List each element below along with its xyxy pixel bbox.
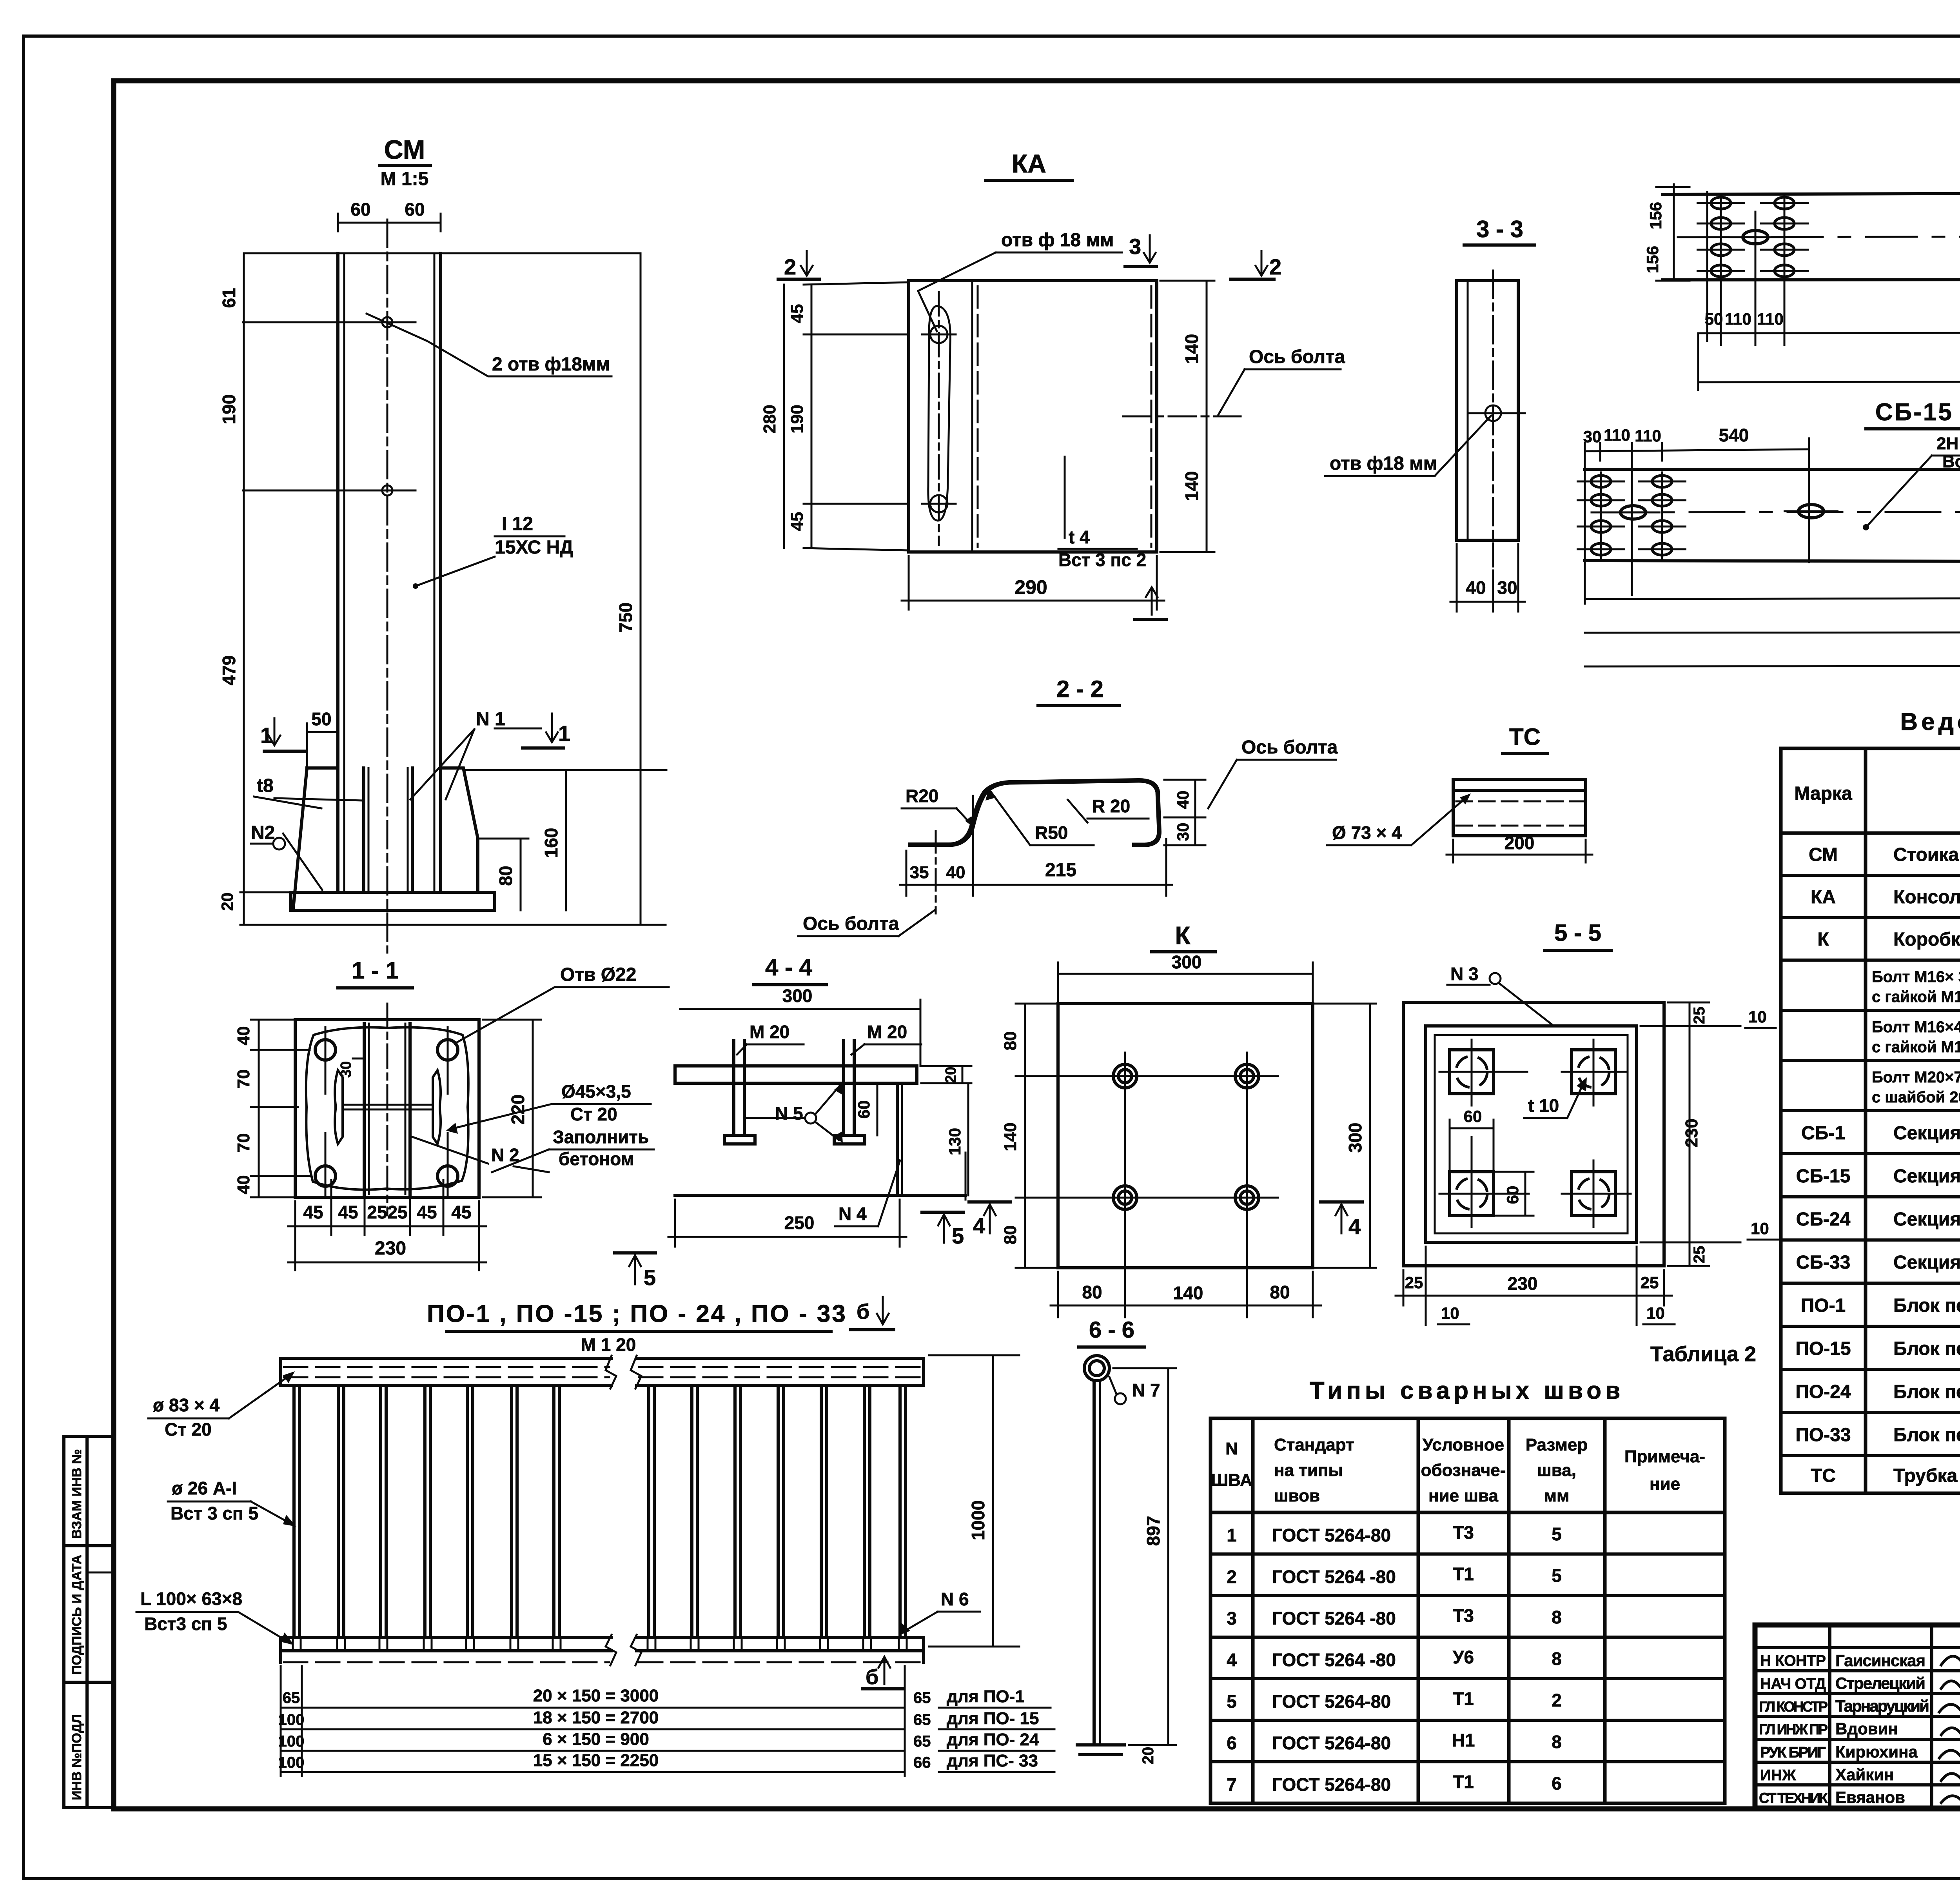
foot <box>1077 1743 1124 1746</box>
svg-text:Евяанов: Евяанов <box>1835 1788 1905 1806</box>
svg-text:Консоль амортизатор: Консоль амортизатор <box>1893 887 1960 908</box>
svg-text:Вст 3 сп 5: Вст 3 сп 5 <box>171 1503 258 1523</box>
figure ПО bottom dims <box>278 1666 1054 1776</box>
svg-text:140: 140 <box>1173 1283 1203 1303</box>
svg-text:с шайбой 20 по ГОСТ 11371-78: с шайбой 20 по ГОСТ 11371-78 <box>1872 1089 1960 1106</box>
svg-text:190: 190 <box>788 405 807 433</box>
top chord tube <box>281 1357 612 1360</box>
svg-text:5 - 5: 5 - 5 <box>1554 920 1601 946</box>
personnel table <box>1755 1625 1960 1808</box>
svg-text:N 3: N 3 <box>1450 964 1479 984</box>
svg-text:250: 250 <box>784 1213 815 1233</box>
svg-text:N 2: N 2 <box>491 1145 519 1165</box>
figure КА console <box>760 230 1345 619</box>
svg-text:I 12: I 12 <box>502 514 533 534</box>
svg-text:479: 479 <box>219 655 239 686</box>
svg-text:1: 1 <box>558 721 570 746</box>
svg-text:20: 20 <box>943 1067 959 1083</box>
svg-text:для ПС- 33: для ПС- 33 <box>947 1751 1038 1770</box>
svg-text:100: 100 <box>278 1754 305 1771</box>
dim 60 <box>877 1083 878 1135</box>
table 1 rows <box>1795 844 1960 1486</box>
svg-text:10: 10 <box>1751 1219 1769 1238</box>
svg-text:1: 1 <box>260 723 272 748</box>
svg-text:ТС: ТС <box>1509 724 1541 750</box>
svg-text:СБ-15 , СБ-24 . СБ-33: СБ-15 , СБ-24 . СБ-33 <box>1875 399 1960 426</box>
svg-text:140: 140 <box>1181 471 1202 501</box>
svg-text:Ведомость марок для ОГ и: Ведомость марок для ОГ и ПО <box>1900 708 1960 735</box>
svg-text:70: 70 <box>234 1133 253 1153</box>
I-beam flange right <box>433 1070 441 1144</box>
svg-text:СМ: СМ <box>384 135 425 165</box>
svg-text:35: 35 <box>910 863 929 882</box>
figure ПО railing panel 2 <box>631 1355 1019 1665</box>
svg-text:65: 65 <box>913 1711 931 1728</box>
svg-text:Ø 73 × 4: Ø 73 × 4 <box>1332 822 1402 843</box>
right gusset <box>441 768 478 892</box>
bottom dims 80 140 80 <box>1057 1272 1059 1317</box>
svg-text:50: 50 <box>311 709 331 729</box>
svg-text:отв ф18 мм: отв ф18 мм <box>1330 453 1437 474</box>
svg-text:100: 100 <box>278 1711 305 1728</box>
figure КА title <box>986 149 1072 180</box>
svg-text:65: 65 <box>913 1689 931 1707</box>
svg-text:СБ-1: СБ-1 <box>1801 1123 1845 1144</box>
svg-text:Блок перил: Блок перил <box>1893 1382 1960 1402</box>
svg-text:80: 80 <box>1001 1225 1020 1245</box>
svg-text:КА: КА <box>1811 887 1836 908</box>
table 2 header <box>1211 1435 1705 1505</box>
dim 80 <box>520 839 522 910</box>
svg-text:8: 8 <box>1552 1607 1562 1627</box>
centerline vertical <box>387 1004 388 1215</box>
I-beam flange lines <box>336 253 339 892</box>
svg-text:ШВА: ШВА <box>1211 1471 1252 1490</box>
svg-text:Блок перил: Блок перил <box>1893 1425 1960 1445</box>
svg-text:Стрелецкий: Стрелецкий <box>1835 1674 1926 1692</box>
svg-text:45: 45 <box>788 512 807 531</box>
dim 200 <box>1452 840 1454 862</box>
svg-text:2: 2 <box>784 254 796 279</box>
right dim chain <box>1689 1002 1691 1266</box>
svg-text:1: 1 <box>1227 1525 1237 1545</box>
dim 2840 <box>1585 597 1960 599</box>
svg-text:ние шва: ние шва <box>1428 1486 1498 1505</box>
svg-text:190: 190 <box>219 394 239 425</box>
svg-text:140: 140 <box>1001 1122 1020 1151</box>
svg-text:540: 540 <box>1719 425 1749 445</box>
section mark 4 right <box>1320 1200 1362 1204</box>
bottom chord angle <box>281 1636 612 1639</box>
svg-text:60: 60 <box>1503 1186 1522 1204</box>
svg-text:шва,: шва, <box>1537 1461 1576 1480</box>
small dim 30 <box>353 1058 364 1060</box>
svg-text:Блок перил: Блок перил <box>1893 1295 1960 1316</box>
right dim 300 <box>1369 1004 1371 1268</box>
left dim 280 <box>783 285 785 548</box>
svg-text:40: 40 <box>1174 791 1192 809</box>
svg-text:ТС: ТС <box>1811 1465 1836 1486</box>
svg-text:Марка: Марка <box>1794 783 1852 804</box>
svg-text:25: 25 <box>1405 1273 1423 1292</box>
svg-text:45: 45 <box>303 1202 323 1222</box>
left dim chain 61 190 479 <box>243 253 245 925</box>
svg-text:ние: ние <box>1650 1474 1680 1494</box>
svg-text:М 20: М 20 <box>867 1022 907 1042</box>
table 1 header <box>1794 767 1960 828</box>
svg-text:80: 80 <box>1270 1282 1290 1302</box>
svg-text:6: 6 <box>1552 1773 1562 1794</box>
svg-text:СБ-33: СБ-33 <box>1796 1252 1851 1273</box>
figure 5-5 box section plan <box>1396 964 1778 1325</box>
svg-text:20: 20 <box>218 893 236 911</box>
svg-text:2Н 312×83 ×4: 2Н 312×83 ×4 <box>1936 434 1960 453</box>
svg-text:ГОСТ 5264-80: ГОСТ 5264-80 <box>1272 1525 1391 1545</box>
svg-text:160: 160 <box>541 828 561 858</box>
anchor bolt left <box>732 1040 735 1135</box>
svg-text:Таблица 2: Таблица 2 <box>1650 1342 1756 1366</box>
svg-text:60: 60 <box>1464 1107 1482 1126</box>
svg-text:с гайкой М16 5 по ГОСТ 5915-: с гайкой М16 5 по ГОСТ 5915-70 <box>1872 988 1960 1006</box>
svg-text:2 отв ф18мм: 2 отв ф18мм <box>492 354 610 375</box>
svg-text:30: 30 <box>338 1061 354 1078</box>
figure 1-1 base plate plan <box>234 964 669 1270</box>
svg-text:6: 6 <box>1227 1733 1237 1753</box>
dim 20 <box>962 1066 964 1083</box>
svg-text:290: 290 <box>1014 576 1047 598</box>
svg-text:1 - 1: 1 - 1 <box>352 957 399 984</box>
svg-text:3: 3 <box>1227 1608 1237 1628</box>
svg-text:45: 45 <box>417 1202 437 1222</box>
weld marks <box>293 1638 561 1648</box>
svg-text:130: 130 <box>946 1128 964 1155</box>
svg-text:Отв Ø22: Отв Ø22 <box>560 964 636 985</box>
svg-text:66: 66 <box>913 1754 931 1771</box>
svg-text:Стоика мостовая: Стоика мостовая <box>1893 844 1960 865</box>
svg-text:110: 110 <box>1635 427 1661 445</box>
washer axes <box>1439 1071 1527 1073</box>
dim 230 <box>288 1262 486 1264</box>
figure ТС tube <box>1327 779 1592 862</box>
svg-text:230: 230 <box>1682 1118 1701 1147</box>
left dim chain 45 190 45 <box>811 285 813 548</box>
I-beam section web <box>343 1104 433 1106</box>
figure 1-1 title <box>338 957 412 988</box>
bars <box>294 1385 559 1638</box>
svg-text:100: 100 <box>278 1733 305 1750</box>
svg-text:N 1: N 1 <box>476 709 505 730</box>
svg-text:N 6: N 6 <box>941 1589 969 1609</box>
svg-text:65: 65 <box>913 1733 931 1750</box>
svg-text:Вст 3 пс 2: Вст 3 пс 2 <box>1058 550 1146 570</box>
svg-text:5: 5 <box>952 1224 964 1248</box>
left margin stamp column <box>64 1436 113 1808</box>
svg-text:бетоном: бетоном <box>559 1149 634 1169</box>
svg-text:7: 7 <box>1227 1774 1237 1795</box>
svg-text:Коробка: Коробка <box>1893 929 1960 950</box>
svg-text:230: 230 <box>1508 1273 1538 1294</box>
svg-text:5: 5 <box>1227 1691 1237 1712</box>
signatures <box>1938 1653 1960 1805</box>
svg-text:N 4: N 4 <box>838 1204 867 1224</box>
svg-text:Секция балки: Секция балки <box>1893 1123 1960 1144</box>
left bolt group <box>1706 192 1708 341</box>
svg-text:10: 10 <box>1441 1304 1459 1322</box>
dim 220 <box>532 1020 534 1197</box>
svg-text:Типы сварных швов: Типы сварных швов <box>1310 1377 1624 1404</box>
table 2 grid <box>1210 1418 1725 1803</box>
svg-text:на типы: на типы <box>1274 1461 1343 1480</box>
svg-text:КА: КА <box>1012 149 1046 178</box>
svg-text:Т1: Т1 <box>1453 1564 1474 1584</box>
svg-text:80: 80 <box>1001 1031 1020 1051</box>
svg-text:Болт М20×70 46 по ГОСТ 7798-70: Болт М20×70 46 по ГОСТ 7798-70 <box>1872 1069 1960 1086</box>
dims 60 60 lower-left washer <box>1450 1127 1494 1129</box>
svg-text:t8: t8 <box>257 775 274 796</box>
plate inner <box>1426 1026 1637 1242</box>
base plate <box>291 892 495 910</box>
svg-text:30: 30 <box>1583 427 1602 446</box>
svg-text:К: К <box>1175 921 1191 950</box>
rib plates edge-on <box>363 1024 366 1194</box>
svg-text:ГЛ ИНЖ ПР: ГЛ ИНЖ ПР <box>1759 1721 1828 1737</box>
svg-text:Гаисинская: Гаисинская <box>1835 1651 1926 1670</box>
svg-text:N 5: N 5 <box>775 1103 803 1124</box>
table 1 caption <box>1900 678 1960 735</box>
svg-text:25: 25 <box>1691 1007 1708 1024</box>
svg-text:50: 50 <box>1705 310 1723 328</box>
svg-text:18 × 150 = 2700: 18 × 150 = 2700 <box>533 1708 659 1727</box>
svg-text:Секция балки: Секция балки <box>1893 1166 1960 1187</box>
svg-text:Секция балки: Секция балки <box>1893 1252 1960 1273</box>
dim 50 gusset <box>307 731 338 733</box>
svg-text:61: 61 <box>219 288 239 308</box>
svg-text:Стандарт: Стандарт <box>1274 1435 1354 1454</box>
svg-text:ИНЖ: ИНЖ <box>1760 1767 1796 1784</box>
svg-text:Н КОНТР: Н КОНТР <box>1760 1652 1826 1669</box>
svg-text:Тарнаруцкий: Тарнаруцкий <box>1835 1697 1929 1715</box>
svg-text:М 20: М 20 <box>750 1022 789 1042</box>
svg-text:ГОСТ 5264 -80: ГОСТ 5264 -80 <box>1272 1650 1396 1670</box>
svg-text:45: 45 <box>338 1202 358 1222</box>
svg-text:швов: швов <box>1274 1486 1320 1505</box>
svg-text:156: 156 <box>1643 246 1662 273</box>
dim 3140 <box>1585 632 1960 633</box>
svg-text:Болт М16×45,46 по ГОСТ 7802-81: Болт М16×45,46 по ГОСТ 7802-81 <box>1872 1018 1960 1036</box>
svg-text:15ХС НД: 15ХС НД <box>495 537 573 558</box>
box walls outer <box>1403 1002 1664 1266</box>
svg-text:300: 300 <box>1345 1123 1365 1153</box>
svg-text:25: 25 <box>1691 1246 1708 1264</box>
svg-text:Т3: Т3 <box>1453 1522 1474 1543</box>
slot outline <box>928 306 951 521</box>
dim 897 <box>1167 1368 1169 1745</box>
svg-text:ИНВ №ПОДЛ: ИНВ №ПОДЛ <box>69 1714 84 1800</box>
svg-text:Ось болта: Ось болта <box>803 913 899 934</box>
figure ПО railing panel 1 <box>281 1356 616 1665</box>
section mark 5 left <box>615 1251 655 1255</box>
dim 3440 <box>1585 666 1960 666</box>
base plate <box>675 1066 917 1083</box>
svg-text:обозначе-: обозначе- <box>1421 1461 1506 1480</box>
svg-text:2: 2 <box>1227 1567 1237 1587</box>
dim 160 <box>565 770 567 910</box>
top dim 30 110 110 540 <box>1585 449 1809 451</box>
svg-text:Трубка стыковочная: Трубка стыковочная <box>1893 1465 1960 1486</box>
svg-text:Ст 20: Ст 20 <box>570 1104 617 1124</box>
svg-text:ГОСТ 5264-80: ГОСТ 5264-80 <box>1272 1733 1391 1753</box>
left gusset <box>293 768 338 909</box>
svg-text:N2: N2 <box>251 822 275 843</box>
svg-text:4: 4 <box>973 1213 985 1238</box>
figure СБ-1 beam <box>1643 117 1960 390</box>
N4 plate <box>896 1083 899 1195</box>
holes <box>1113 1064 1259 1209</box>
svg-text:б: б <box>857 1300 869 1323</box>
svg-text:ПО-24: ПО-24 <box>1795 1382 1851 1402</box>
holes <box>315 1040 336 1060</box>
svg-text:ГОСТ 5264 -80: ГОСТ 5264 -80 <box>1272 1567 1396 1587</box>
figure К plate plan <box>1001 952 1376 1317</box>
svg-text:СМ: СМ <box>1809 844 1838 865</box>
svg-text:220: 220 <box>508 1095 528 1125</box>
svg-text:60: 60 <box>350 199 370 220</box>
section mark 2 right <box>1256 251 1267 276</box>
stiffener ribs N1 <box>362 768 365 892</box>
svg-text:110: 110 <box>1604 426 1630 444</box>
svg-text:8: 8 <box>1552 1648 1562 1669</box>
left bolt group <box>1600 472 1602 559</box>
figure К title <box>1152 921 1215 952</box>
svg-text:Ст 20: Ст 20 <box>165 1419 212 1440</box>
svg-text:156: 156 <box>1646 202 1665 229</box>
svg-text:30: 30 <box>1174 823 1192 841</box>
figure 4-4 section <box>615 986 1362 1290</box>
svg-text:80: 80 <box>495 866 516 886</box>
svg-text:t 4: t 4 <box>1069 527 1090 547</box>
svg-text:б: б <box>866 1665 878 1689</box>
svg-text:3 - 3: 3 - 3 <box>1476 216 1523 242</box>
svg-text:300: 300 <box>782 986 813 1006</box>
svg-text:Т1: Т1 <box>1453 1772 1474 1792</box>
svg-text:280: 280 <box>760 405 779 433</box>
figure 2-2 title <box>1038 676 1119 706</box>
svg-text:45: 45 <box>451 1202 471 1222</box>
figure 6-6 post section <box>862 1356 1176 1764</box>
svg-text:L 100× 63×8: L 100× 63×8 <box>140 1589 242 1609</box>
svg-text:с гайкой М16 5 по ГОСТ 5915-7: с гайкой М16 5 по ГОСТ 5915-70 <box>1872 1038 1960 1056</box>
svg-text:ВЗАМ ИНВ №: ВЗАМ ИНВ № <box>69 1449 84 1539</box>
figure 3-3 section <box>1325 271 1525 612</box>
dim line 1880 <box>1698 332 1960 333</box>
svg-text:110: 110 <box>1725 310 1751 328</box>
svg-text:Т1: Т1 <box>1453 1688 1474 1709</box>
svg-text:Ø45×3,5: Ø45×3,5 <box>561 1081 631 1102</box>
figure 4-4 title <box>753 954 826 985</box>
svg-text:У6: У6 <box>1453 1647 1474 1667</box>
svg-text:25: 25 <box>387 1202 407 1222</box>
svg-text:РУК БРИГ: РУК БРИГ <box>1760 1744 1826 1761</box>
section mark 4 left <box>969 1200 1011 1204</box>
bottom dim 40 30 <box>1456 544 1458 612</box>
title block frame <box>1755 1625 1960 1808</box>
dim 300 <box>680 1008 920 1010</box>
svg-text:Хайкин: Хайкин <box>1835 1765 1894 1784</box>
bottom edge <box>675 1194 965 1197</box>
svg-text:300: 300 <box>1172 952 1202 972</box>
bottom dims 45 45 25 25 45 45 <box>294 1201 296 1270</box>
plate centerline <box>938 292 940 545</box>
svg-text:230: 230 <box>375 1238 406 1259</box>
svg-text:Вст3 сп 5: Вст3 сп 5 <box>144 1614 227 1634</box>
plate outline <box>1058 1004 1313 1268</box>
figure 3-3 title <box>1464 216 1535 245</box>
svg-text:25: 25 <box>1641 1273 1659 1292</box>
svg-text:6 × 150 = 900: 6 × 150 = 900 <box>543 1730 649 1749</box>
svg-text:70: 70 <box>234 1069 253 1089</box>
svg-text:Блок перил: Блок перил <box>1893 1338 1960 1359</box>
svg-text:Вст 3 пс 2: Вст 3 пс 2 <box>1942 452 1960 471</box>
figure 2-2 guardrail section <box>798 737 1338 936</box>
svg-text:1000: 1000 <box>968 1500 988 1540</box>
section mark 5 right <box>922 1211 964 1214</box>
bottom dim 35 40 215 <box>906 851 907 896</box>
post centerline <box>387 220 388 953</box>
svg-text:10: 10 <box>1748 1008 1767 1026</box>
figure 5-5 title <box>1544 920 1611 950</box>
section mark 1 right <box>546 713 558 742</box>
plate outline <box>909 281 1157 552</box>
left dim chain 80 140 80 <box>1024 1004 1026 1268</box>
svg-text:4 - 4: 4 - 4 <box>765 954 813 980</box>
svg-text:40: 40 <box>234 1026 253 1046</box>
svg-text:897: 897 <box>1143 1516 1163 1546</box>
svg-text:6 - 6: 6 - 6 <box>1089 1317 1134 1343</box>
top dim 60 60 <box>338 222 441 224</box>
svg-text:15 × 150 = 2250: 15 × 150 = 2250 <box>533 1751 659 1770</box>
svg-text:ПО-15: ПО-15 <box>1795 1338 1851 1359</box>
svg-text:80: 80 <box>1082 1282 1102 1302</box>
bolt axis <box>935 831 937 913</box>
svg-text:40: 40 <box>946 863 965 882</box>
svg-text:5: 5 <box>1552 1565 1562 1586</box>
figure СМ post elevation <box>218 199 666 953</box>
svg-text:для ПО-1: для ПО-1 <box>947 1687 1025 1706</box>
bolt hole bottom <box>930 495 947 512</box>
hole axes <box>1016 1075 1278 1077</box>
figure ПО leaders <box>136 1371 296 1645</box>
svg-text:R 20: R 20 <box>1092 796 1130 816</box>
bolt axis line <box>1123 416 1241 418</box>
svg-text:t 10: t 10 <box>1528 1095 1559 1116</box>
svg-text:65: 65 <box>283 1689 300 1707</box>
svg-text:ГОСТ 5264-80: ГОСТ 5264-80 <box>1272 1691 1391 1712</box>
svg-text:Ось болта: Ось болта <box>1241 737 1338 758</box>
svg-text:8: 8 <box>1552 1732 1562 1752</box>
dim 300 top <box>1058 973 1313 975</box>
svg-text:ГЛ КОНСТР: ГЛ КОНСТР <box>1759 1699 1828 1715</box>
svg-text:К: К <box>1817 929 1829 950</box>
svg-text:М 1:5: М 1:5 <box>381 169 429 189</box>
bolt hole bottom <box>382 485 392 496</box>
svg-text:N: N <box>1225 1439 1238 1458</box>
left 156 dim <box>1673 184 1675 281</box>
svg-text:45: 45 <box>788 304 807 323</box>
figure СМ title <box>379 135 430 189</box>
svg-text:Болт М16× 30 46 по ГОСТ 7798-: Болт М16× 30 46 по ГОСТ 7798-70 <box>1872 968 1960 986</box>
svg-text:Т3: Т3 <box>1453 1605 1474 1626</box>
svg-text:60: 60 <box>405 199 425 220</box>
